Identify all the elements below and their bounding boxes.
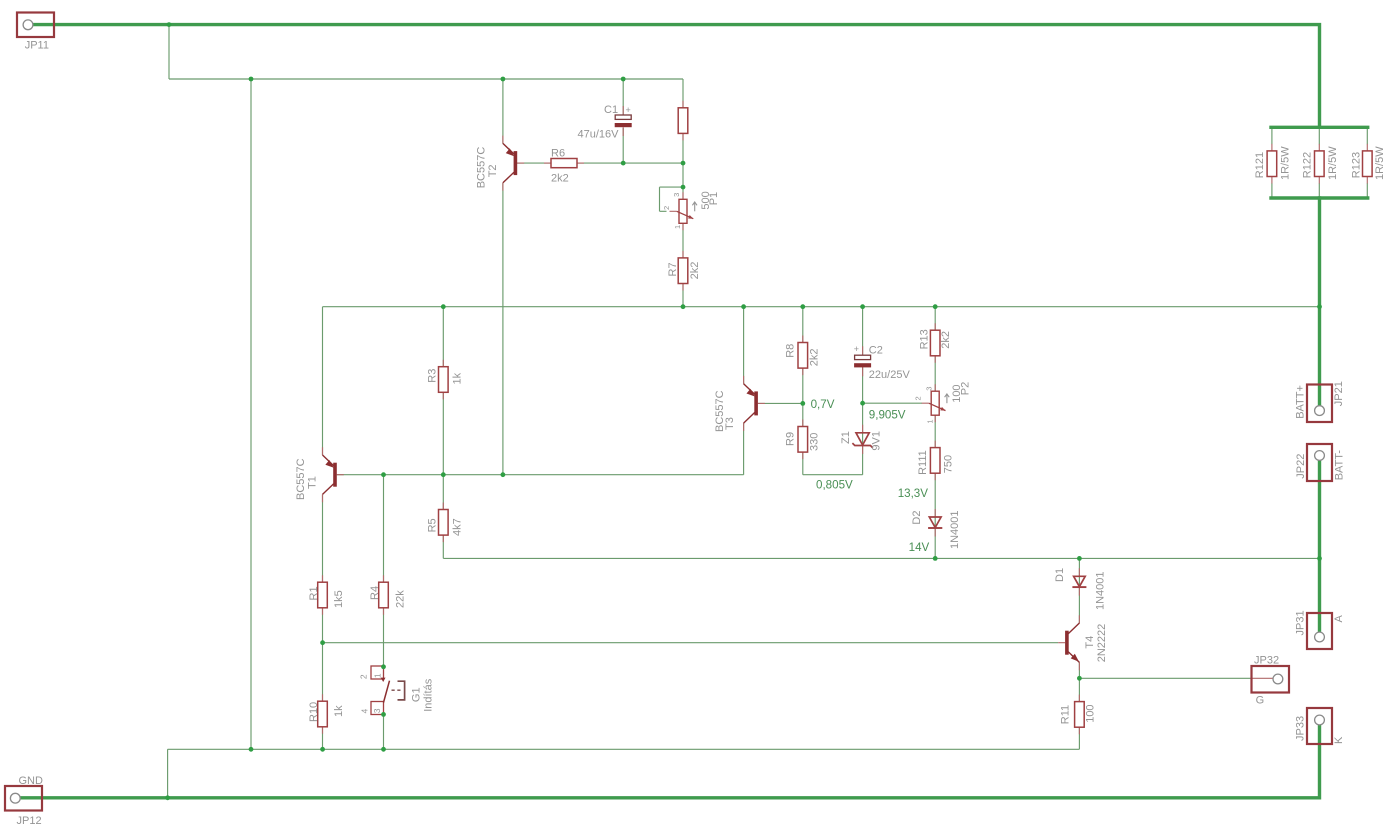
svg-text:P1: P1 [708,192,720,205]
svg-text:JP31: JP31 [1294,610,1306,635]
svg-text:13,3V: 13,3V [898,487,929,500]
svg-text:2: 2 [359,674,369,679]
svg-text:1: 1 [673,225,682,229]
svg-text:R9: R9 [785,432,797,446]
svg-text:2: 2 [662,206,671,210]
svg-text:R8: R8 [785,344,797,358]
svg-text:47u/16V: 47u/16V [578,129,620,141]
svg-text:BATT-: BATT- [1333,450,1345,481]
svg-text:+: + [854,344,859,354]
svg-text:0,7V: 0,7V [811,398,835,411]
svg-text:2k2: 2k2 [689,262,701,280]
svg-text:JP12: JP12 [17,815,42,825]
svg-text:BC557C: BC557C [295,458,307,500]
svg-text:D1: D1 [1054,568,1066,582]
svg-text:330: 330 [808,433,820,451]
svg-text:3: 3 [672,193,681,197]
svg-text:K: K [1333,736,1345,744]
svg-text:T4: T4 [1084,636,1096,649]
svg-text:R11: R11 [1060,705,1072,724]
svg-text:750: 750 [942,455,954,473]
svg-text:T1: T1 [306,476,318,489]
svg-text:R122: R122 [1301,152,1313,178]
svg-text:G: G [1256,694,1265,706]
svg-text:9,905V: 9,905V [869,408,906,421]
svg-text:JP32: JP32 [1254,655,1279,667]
svg-text:D2: D2 [911,511,923,525]
svg-text:2N2222: 2N2222 [1096,624,1108,663]
svg-text:14V: 14V [909,541,930,554]
svg-text:R5: R5 [426,518,438,532]
svg-text:2k2: 2k2 [808,349,820,367]
svg-text:BC557C: BC557C [475,147,487,189]
svg-text:JP22: JP22 [1295,454,1307,479]
svg-text:R13: R13 [919,329,931,349]
svg-text:100: 100 [1085,704,1097,722]
svg-text:T3: T3 [724,417,736,430]
svg-text:1R/5W: 1R/5W [1374,146,1386,180]
svg-text:JP21: JP21 [1333,381,1345,406]
svg-text:1k: 1k [333,705,345,717]
svg-text:C1: C1 [604,104,618,116]
svg-text:T2: T2 [487,164,499,177]
svg-text:R121: R121 [1254,152,1266,178]
svg-text:Z1: Z1 [840,431,852,444]
svg-text:1k: 1k [451,372,463,384]
svg-text:1R/5W: 1R/5W [1279,146,1291,180]
svg-text:R6: R6 [551,148,565,160]
svg-text:1R/5W: 1R/5W [1327,146,1339,180]
svg-text:1: 1 [372,673,382,678]
svg-text:C2: C2 [869,345,883,357]
svg-text:22k: 22k [394,590,406,608]
svg-text:2: 2 [914,396,923,400]
svg-text:R123: R123 [1350,152,1362,178]
svg-text:R3: R3 [426,369,438,383]
svg-text:R7: R7 [667,262,679,276]
svg-text:Indítás: Indítás [422,678,434,712]
svg-text:2k2: 2k2 [551,173,569,185]
svg-text:JP11: JP11 [25,39,49,51]
svg-text:P2: P2 [959,382,971,395]
svg-text:JP33: JP33 [1294,716,1306,741]
svg-text:BATT+: BATT+ [1294,385,1306,419]
svg-text:G1: G1 [410,687,422,702]
svg-text:R111: R111 [917,450,929,475]
svg-text:1: 1 [925,419,934,423]
svg-text:22u/25V: 22u/25V [869,369,911,381]
svg-text:R1: R1 [308,586,320,600]
svg-text:2k2: 2k2 [940,331,952,349]
svg-text:+: + [626,105,631,115]
svg-text:A: A [1333,615,1345,623]
svg-text:4: 4 [359,709,369,714]
svg-text:1N4001: 1N4001 [949,510,961,549]
svg-text:3: 3 [372,708,382,713]
svg-text:R4: R4 [369,586,381,600]
svg-text:1N4001: 1N4001 [1095,571,1107,610]
svg-text:GND: GND [19,775,44,787]
svg-text:9V1: 9V1 [871,431,883,451]
svg-text:3: 3 [924,387,933,391]
svg-text:R10: R10 [308,702,320,722]
svg-text:1k5: 1k5 [333,590,345,608]
svg-text:4k7: 4k7 [451,518,463,536]
svg-text:0,805V: 0,805V [816,478,853,491]
